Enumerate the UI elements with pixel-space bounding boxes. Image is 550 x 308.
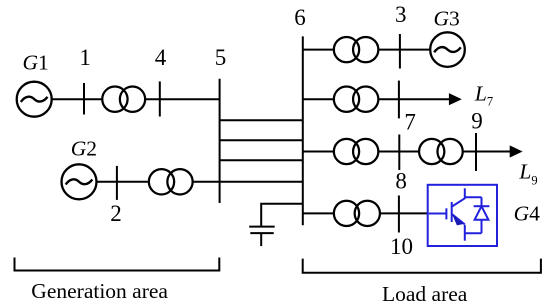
svg-text:L7: L7 — [474, 81, 493, 108]
svg-text:10: 10 — [390, 234, 413, 259]
node 10 (bus tick) — [398, 196, 400, 233]
wire T7 to converter G4 — [380, 212, 428, 214]
bus 6 — [302, 36, 304, 225]
capacitor ground stub — [260, 233, 262, 246]
node 7 (bus tick) — [398, 81, 400, 119]
wire line 5-6 c — [220, 159, 303, 161]
transformer T3 — [334, 37, 379, 62]
wire bus 6 to T5 — [303, 151, 334, 153]
svg-text:2: 2 — [110, 201, 122, 226]
svg-text:G2: G2 — [71, 136, 97, 160]
svg-text:G3: G3 — [434, 7, 460, 31]
load arrow L9 — [510, 145, 523, 157]
svg-text:3: 3 — [395, 2, 407, 27]
brace Load area — [303, 259, 541, 273]
IGBT bottom wire — [465, 232, 482, 234]
svg-text:7: 7 — [404, 109, 416, 134]
wire bus 6 to T3 — [303, 49, 334, 51]
svg-text:G4: G4 — [514, 202, 541, 226]
wire bus 5 to bus 6 bottom — [220, 181, 303, 183]
node 2 (bus tick) — [116, 166, 118, 200]
converter G4 box — [428, 185, 497, 246]
node 3 (bus tick) — [399, 34, 401, 69]
generator G2 — [62, 164, 97, 199]
diode D1 lower vertical — [481, 220, 483, 233]
wire T1 to bus 5 — [145, 98, 220, 100]
node 8 (bus tick) — [398, 135, 400, 171]
svg-text:8: 8 — [395, 169, 407, 194]
svg-text:Load area: Load area — [382, 282, 468, 306]
node 9 (bus tick) — [475, 133, 477, 171]
transformer T7 — [334, 201, 380, 226]
G4 gate lead bar — [445, 208, 447, 219]
wire line 5-6 a — [220, 119, 303, 121]
wire T5 to T6 — [378, 151, 419, 153]
brace Generation area — [15, 258, 220, 271]
IGBT emitter vertical — [464, 225, 466, 241]
capacitor C1 bottom plate — [250, 232, 273, 234]
wire G1 to T1 — [52, 98, 103, 100]
load arrow L7 — [449, 93, 462, 105]
G4 gate lead — [429, 213, 446, 215]
IGBT collector vertical — [464, 188, 466, 199]
IGBT emitter slant — [452, 214, 465, 224]
wire T4 to L7 arrow — [378, 98, 449, 100]
svg-text:9: 9 — [471, 109, 483, 134]
transformer T2 — [149, 169, 193, 194]
svg-text:L9: L9 — [518, 159, 537, 187]
wire T6 to L9 arrow — [463, 151, 511, 153]
svg-text:6: 6 — [294, 5, 306, 30]
bus 5 — [219, 79, 221, 203]
svg-text:1: 1 — [79, 45, 91, 70]
IGBT gate bar — [451, 202, 453, 222]
svg-text:4: 4 — [155, 45, 167, 70]
svg-text:G1: G1 — [23, 50, 49, 74]
node 4 (bus tick) — [159, 81, 161, 116]
wire line 5-6 b — [220, 139, 303, 141]
wire bus 6 to T7 — [303, 212, 334, 214]
diode D1 triangle — [475, 206, 489, 220]
IGBT top tee wire — [465, 196, 482, 198]
svg-text:5: 5 — [215, 45, 227, 70]
diode D1 cathode bar — [474, 205, 490, 207]
capacitor wire from bus 6 — [261, 204, 303, 227]
svg-text:Generation area: Generation area — [31, 279, 168, 303]
wire T3 to G3 — [378, 49, 430, 51]
transformer T4 — [334, 87, 379, 112]
node 1 (bus tick) — [83, 83, 85, 115]
transformer T1 — [102, 87, 145, 112]
generator G3 — [430, 32, 465, 67]
transformer T5 — [334, 139, 379, 164]
wire bus 6 to T4 — [303, 98, 334, 100]
generator G1 — [17, 82, 52, 117]
transformer T6 — [419, 139, 463, 164]
wire T2 to bus 5 — [193, 181, 220, 183]
IGBT emitter arrowhead — [452, 215, 463, 226]
capacitor C1 top plate — [249, 226, 275, 228]
IGBT collector slant — [452, 198, 465, 206]
wire G2 to T2 — [97, 181, 149, 183]
diode D1 upper vertical — [481, 197, 483, 206]
